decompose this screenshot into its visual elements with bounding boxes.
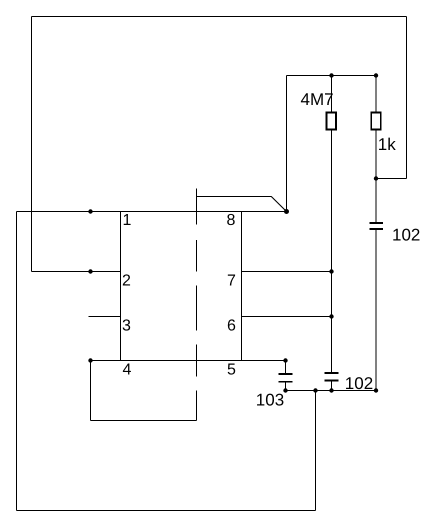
junction 4M7 top — [329, 73, 333, 77]
resistor R2 1k body — [371, 113, 381, 130]
wire left border — [16, 212, 18, 511]
wire C-102a bottom lead — [375, 230, 377, 391]
IC U1 dashed centerline seg1 — [196, 189, 198, 225]
IC U1 dashed centerline seg3 — [196, 286, 198, 331]
junction C103 bottom — [283, 388, 287, 392]
wire pin2 — [32, 271, 121, 273]
svg-text:1k: 1k — [378, 135, 396, 154]
wire pin6 — [242, 316, 332, 318]
resistor R1 4M7 body — [327, 113, 337, 130]
wire pin4-pin5 row — [91, 360, 286, 362]
IC U1 right edge — [241, 212, 243, 361]
capacitor C1 102 bottom plate — [369, 228, 383, 230]
svg-text:7: 7 — [227, 273, 236, 290]
wire riser to pin8 — [286, 76, 288, 212]
svg-text:2: 2 — [122, 273, 131, 290]
wire pin1-pin8 row — [17, 211, 287, 213]
junction 1k bottom node — [374, 176, 378, 180]
wire 1k top lead — [375, 76, 377, 113]
junction pin7 — [329, 269, 333, 273]
wire 4M7 top lead — [331, 76, 333, 113]
IC U1 pin1 wedge diagonal — [271, 197, 286, 212]
junction pin4 — [88, 358, 92, 362]
svg-text:6: 6 — [227, 318, 236, 335]
junction pin8 wedge — [284, 209, 289, 214]
wire rect left below pin4 — [90, 361, 92, 421]
svg-text:103: 103 — [256, 391, 284, 410]
capacitor C3 102 bottom plate — [325, 380, 339, 382]
junction bottom T — [313, 388, 317, 392]
svg-text:8: 8 — [226, 212, 235, 229]
svg-text:4: 4 — [122, 362, 131, 379]
svg-text:4M7: 4M7 — [300, 90, 333, 109]
wire bottom riser — [315, 391, 317, 511]
junction pin2 — [88, 269, 92, 273]
wire bottom node row — [286, 390, 377, 392]
junction pin5 / C103 top — [283, 358, 287, 362]
wire rect bottom — [91, 420, 197, 422]
IC U1 dashed centerline seg4 — [196, 345, 198, 377]
wire left drop to pin2 — [31, 17, 33, 272]
junction 1k top — [374, 73, 378, 77]
capacitor C2 103 top plate — [279, 373, 293, 375]
wire C-103 top lead — [285, 361, 287, 374]
junction pin1 — [88, 209, 92, 213]
svg-text:1: 1 — [122, 212, 131, 229]
wire 1k bottom lead — [375, 131, 377, 223]
wire top rail VCC — [32, 16, 407, 18]
IC U1 top edge — [197, 196, 272, 198]
IC U1 dashed centerline seg2 — [196, 240, 198, 272]
wire rail to resistor tops — [287, 75, 377, 77]
wire C-102b bottom lead — [331, 381, 333, 391]
svg-text:5: 5 — [227, 362, 236, 379]
wire bottom rail — [17, 510, 316, 512]
svg-text:102: 102 — [345, 374, 373, 393]
wire rect right — [196, 391, 198, 421]
capacitor C2 103 bottom plate — [279, 381, 293, 383]
junction pin6 — [329, 314, 333, 318]
svg-text:3: 3 — [122, 318, 131, 335]
wire 4M7 bottom lead — [331, 131, 333, 373]
junction bottom right — [374, 388, 378, 392]
wire right drop — [406, 17, 408, 179]
capacitor C1 102 top plate — [369, 222, 383, 224]
wire jog to 1k bottom node — [376, 178, 407, 180]
IC U1 left edge — [120, 212, 122, 361]
capacitor C3 102 top plate — [325, 372, 339, 374]
wire pin3 stub — [89, 316, 121, 318]
wire C-103 bottom lead — [285, 382, 287, 391]
svg-text:102: 102 — [392, 226, 420, 245]
wire pin7 — [242, 271, 332, 273]
junction C102b bottom — [329, 388, 333, 392]
